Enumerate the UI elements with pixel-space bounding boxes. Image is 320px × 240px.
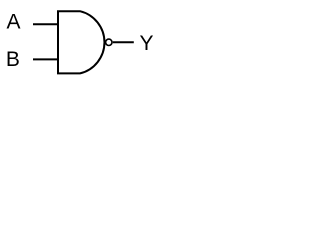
nand gate U1 body: [58, 11, 104, 73]
svg-text:B: B: [6, 48, 20, 71]
wire output Y: [113, 41, 134, 43]
svg-text:Y: Y: [140, 32, 154, 55]
wire input B: [33, 58, 58, 60]
svg-text:A: A: [7, 11, 21, 34]
wire input A: [33, 23, 58, 25]
inverter bubble: [106, 39, 112, 45]
